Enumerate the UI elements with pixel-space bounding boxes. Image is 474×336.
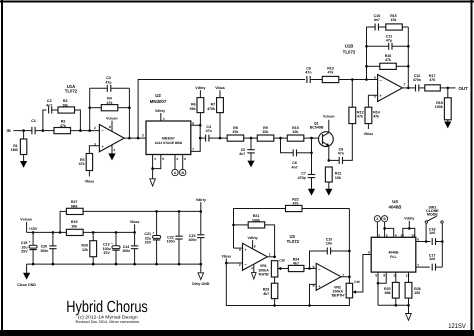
capacitor C15 10n [310,237,350,268]
op-amp U3B [313,263,345,290]
ground C5 [247,161,254,168]
resistor R23 4k7 [263,277,278,306]
svg-text:47k: 47k [373,115,379,119]
wire U3B output vertical [348,209,350,284]
svg-text:5: 5 [162,157,164,161]
svg-text:1n0: 1n0 [429,257,435,261]
resistor R25 68k [384,272,399,305]
ground Dirty GND open arrow [192,264,210,286]
svg-text:10n: 10n [326,242,332,246]
svg-text:100k: 100k [435,105,443,109]
capacitor C5 4n7 [239,138,255,161]
svg-text:8: 8 [109,125,111,129]
junction wet/dry mix node [351,78,354,81]
resistor R8 15k [220,126,257,141]
wire U3A - input row [226,262,242,264]
wire U1B + input [368,95,377,107]
svg-text:100n: 100n [167,240,175,244]
svg-text:9: 9 [368,251,370,255]
svg-text:25V: 25V [103,251,110,255]
resistor R17 470 [425,74,456,91]
svg-text:8: 8 [192,122,194,126]
resistor R1 1M0 [11,131,27,161]
capacitor C16 1n0 [429,228,442,246]
svg-text:Hybrid Chorus: Hybrid Chorus [66,298,148,316]
svg-text:C1: C1 [31,119,36,123]
svg-text:U4: U4 [392,199,398,204]
svg-text:7: 7 [192,148,194,152]
switch SW1 CLONE MODE [425,206,443,224]
capacitor C14 100n [122,232,138,264]
svg-text:Vclean: Vclean [323,115,335,119]
svg-text:Vdirty: Vdirty [195,86,205,90]
wire U4 pins 5,8 to rail [375,272,386,305]
wire branch up [43,110,47,131]
resistor R15 15k [386,14,409,30]
svg-text:+: + [152,231,154,235]
svg-text:100: 100 [414,291,420,295]
wire VR2 wiper to U4 pin9 [356,255,371,293]
svg-text:TL072: TL072 [65,89,78,94]
junction R18 tap [447,87,450,90]
wire + input [89,146,99,154]
svg-text:1M0: 1M0 [11,148,18,152]
wire main row to R3 [43,130,54,132]
junction [22,129,25,132]
svg-text:5: 5 [375,274,377,278]
op-amp U3 label [287,234,300,244]
svg-text:7: 7 [404,83,406,87]
node Vbias under R14 [364,132,374,136]
svg-text:7: 7 [417,264,419,268]
node Vbias tap [130,220,140,233]
svg-text:5R6: 5R6 [71,204,78,208]
svg-text:12k: 12k [82,248,88,252]
svg-text:470n: 470n [413,78,421,82]
svg-text:4: 4 [395,233,397,237]
svg-text:4: 4 [113,148,115,152]
wire feedback loop verticals [366,27,368,80]
ground [20,161,27,168]
svg-text:4n7: 4n7 [374,18,380,22]
node clock B out [382,216,388,238]
capacitor C3 47p [90,76,130,92]
svg-text:4n7: 4n7 [239,152,245,156]
resistor R4 47k [90,97,130,111]
capacitor C7 470p [298,153,316,189]
wire BBD outputs pins 8,7 [191,122,202,152]
svg-text:47k: 47k [328,71,334,75]
resistor R24 4k7 [288,257,316,271]
svg-text:100n: 100n [188,238,196,242]
resistor R18 100k [435,88,451,122]
svg-text:16: 16 [411,233,415,237]
svg-text:OUT: OUT [459,86,469,91]
title: Hybrid Chorus [66,298,466,330]
svg-text:+: + [111,241,113,245]
svg-text:U1B: U1B [345,44,354,49]
junction C15 tap [308,267,311,270]
svg-text:Vbias: Vbias [215,86,225,90]
wire U1A output row [124,137,146,139]
wire U3B output [341,276,349,278]
svg-text:470p: 470p [298,176,307,180]
junction after C4 [219,137,222,140]
svg-text:1024 STAGE BBD: 1024 STAGE BBD [155,141,183,145]
junction R8/R9 [250,137,253,140]
ground U4 open arrow [406,305,412,320]
resistor R26 100 [405,272,421,305]
resistor R6 56k [190,86,206,125]
svg-text:Clean GND: Clean GND [17,283,36,287]
svg-text:56k: 56k [190,107,196,111]
svg-text:15k: 15k [391,18,397,22]
svg-text:47n: 47n [305,71,311,75]
junction feedback tap [365,78,368,81]
resistor R9 10k [257,126,287,141]
resistor R27 5R6 [60,200,201,232]
resistor R13 47k [322,67,366,83]
resistor R3 47k [54,120,99,134]
svg-text:8: 8 [383,274,385,278]
capacitor C13 100u electrolytic [103,232,120,264]
svg-text:1: 1 [269,252,271,256]
svg-text:47p: 47p [386,39,393,43]
capacitor C21 22u electrolytic [144,211,160,264]
svg-text:47k: 47k [385,58,391,62]
wire clean supply rail [27,231,67,233]
svg-text:15k: 15k [62,103,68,107]
svg-text:'DEPTH': 'DEPTH' [331,294,345,298]
svg-text:U2: U2 [155,93,161,98]
resistor R2 15k [58,99,80,130]
wire dry path up and across [138,80,305,139]
svg-text:25V: 25V [145,241,152,245]
svg-text:47k: 47k [293,202,299,206]
capacitor C17 1n0 [416,253,443,270]
svg-text:10k: 10k [262,130,268,134]
node OUT [459,86,469,91]
svg-text:47n: 47n [338,152,344,156]
wire pin4 branch [385,228,394,237]
svg-text:2: 2 [94,126,96,130]
svg-text:10k: 10k [71,224,77,228]
ground R11 [325,189,332,196]
resistor R7 470k [207,86,225,138]
svg-text:47p: 47p [105,80,112,84]
wire U4 ground rail [378,304,409,306]
wire feedback right vertical [128,88,130,138]
svg-text:Vdirty: Vdirty [155,109,165,113]
node Vdirty tap [196,198,206,212]
svg-text:TL072: TL072 [287,239,300,244]
svg-text:2: 2 [176,157,178,161]
node clock A out [374,216,380,238]
wire U1B output row [402,87,415,89]
capacitor C12 470n [413,74,425,91]
svg-text:4046B: 4046B [389,205,402,210]
svg-text:25V: 25V [21,250,28,254]
resistor R19 10k [66,220,134,235]
svg-text:TL072: TL072 [343,50,356,55]
junction at branch rejoin [79,129,82,132]
resistor R22 47k [286,197,350,211]
capacitor C4 47n [200,125,220,142]
svg-text:100n: 100n [40,249,48,253]
op-amp U1B TL072 [343,44,406,102]
svg-text:Vdirty: Vdirty [196,198,206,202]
capacitor C6 4n7 parallel R10 [281,138,312,169]
svg-text:6: 6 [313,265,315,269]
wire input row [13,130,32,132]
svg-text:3: 3 [142,134,144,138]
svg-text:3: 3 [239,248,241,252]
ground U1A pin4 [108,153,115,160]
potentiometer VR2 100kA DEPTH [331,280,361,298]
svg-text:1: 1 [163,117,165,121]
svg-text:47k: 47k [357,115,363,119]
svg-text:470k: 470k [207,107,215,111]
svg-text:Vclean: Vclean [20,218,32,222]
resistor R5 47k [79,154,93,177]
svg-text:3: 3 [386,233,388,237]
junction at feedback tap [88,129,91,132]
ground R18 [444,122,451,129]
node Vclean supply entry [20,218,38,233]
svg-text:121SV: 121SV [448,323,466,330]
junction node after C1 [42,129,45,132]
IC U2 MN3007 [142,93,191,155]
svg-text:Vclean: Vclean [106,116,118,120]
BBD ground pins 4,5 [151,155,164,179]
resistor R20 12k [81,232,96,264]
svg-text:6: 6 [184,157,186,161]
svg-text:MN3007: MN3007 [162,136,175,140]
capacitor C20 100n [40,232,56,264]
svg-text:(c) 2012-14 Myriad Design: (c) 2012-14 Myriad Design [78,314,139,319]
wire LFO top loop [234,209,286,249]
wire Vbias rail down and across [226,263,349,306]
svg-text:+: + [29,240,31,244]
node clock A [172,155,179,176]
svg-text:4n7: 4n7 [46,103,52,107]
capacitor C10 4n7 [367,14,386,31]
svg-text:15k: 15k [232,130,238,134]
svg-text:4n7: 4n7 [291,165,297,169]
svg-text:2: 2 [378,233,380,237]
resistor R16 47k [367,54,409,69]
svg-text:Revised Dec 2014. Minor correc: Revised Dec 2014. Minor corrections. [76,320,141,324]
wire feedback left vertical [89,88,91,130]
node IN [7,128,11,133]
svg-text:CW: CW [279,258,285,262]
svg-text:Vdirty: Vdirty [404,217,414,221]
wire switch right vertical [441,223,443,267]
svg-text:4k7: 4k7 [293,262,299,266]
svg-text:14: 14 [400,233,404,237]
capacitor C22 100n [167,211,183,264]
transistor Q1 BC549B [310,115,335,161]
ground Clean GND [17,264,36,287]
svg-text:47k: 47k [79,162,85,166]
wire ground rail [27,263,201,265]
svg-text:470: 470 [429,78,435,82]
ground U3A pin4 open arrow [252,273,257,279]
svg-text:4046B: 4046B [389,251,400,255]
node Vbias under R5 [85,180,95,184]
capacitor C23 100n [188,211,204,264]
resistor R21 100k [234,214,275,257]
wire U3A + input [234,247,243,249]
capacitor C1 [31,119,43,135]
svg-text:47k: 47k [107,101,113,105]
junction R9/R10 [279,137,282,140]
svg-text:+15V: +15V [29,227,38,231]
svg-text:10k: 10k [292,130,298,134]
svg-text:1n0: 1n0 [429,231,435,235]
op-amp U1A TL072 [65,84,124,153]
ground C7 [308,189,315,196]
node Vdirty feed U4 [400,217,415,238]
svg-text:BC549B: BC549B [310,126,324,130]
wire pin6 row [416,241,431,243]
svg-text:100k: 100k [252,218,260,222]
svg-text:Vbias: Vbias [130,220,140,224]
op-amp U3A [239,236,271,273]
IC U4 4046B [368,199,416,272]
svg-text:10k: 10k [335,176,341,180]
svg-text:Vbias: Vbias [85,180,95,184]
svg-text:Vbias: Vbias [364,132,374,136]
capacitor C9 47n [305,67,322,84]
svg-text:47k: 47k [60,124,66,128]
capacitor C19 10u electrolytic [21,232,37,264]
node Vdirty at BBD pin1 [155,109,165,121]
svg-text:MODE: MODE [427,213,438,217]
svg-text:'RATE': 'RATE' [258,273,269,277]
svg-text:2: 2 [239,263,241,267]
resistor R12 47k [349,80,364,124]
svg-text:PLL: PLL [390,255,396,259]
svg-text:11: 11 [393,274,397,278]
svg-text:Vbias: Vbias [222,254,232,258]
svg-text:MN3007: MN3007 [150,99,167,104]
capacitor C2 4n7 [46,99,58,113]
junction R10 output node [310,137,313,140]
svg-text:CW: CW [354,280,360,284]
svg-text:47n: 47n [206,129,212,133]
svg-text:8: 8 [254,244,256,248]
node Vbias to U3A - input [222,254,232,263]
svg-text:4: 4 [251,267,253,271]
svg-text:5: 5 [313,284,315,288]
svg-text:12: 12 [406,274,410,278]
svg-text:4: 4 [154,157,156,161]
resistor R14 47k [365,107,380,129]
resistor R10 10k [287,126,318,141]
svg-text:68k: 68k [385,291,391,295]
node clock B [180,155,187,176]
ground open arrow BBD [150,179,156,186]
svg-text:Vdirty: Vdirty [248,236,258,240]
resistor R11 10k [325,167,341,189]
svg-text:6: 6 [417,238,419,242]
svg-text:Dirty GND: Dirty GND [192,282,210,286]
capacitor C11 47p [367,34,409,50]
wire U3A output [267,256,274,258]
svg-text:IN: IN [7,128,11,133]
svg-text:100n: 100n [122,249,130,253]
svg-text:4k7: 4k7 [263,292,269,296]
potentiometer VR1 100kA RATE [258,258,288,277]
capacitor C8 47n [329,124,353,164]
junction emitter/C8 [328,159,331,162]
